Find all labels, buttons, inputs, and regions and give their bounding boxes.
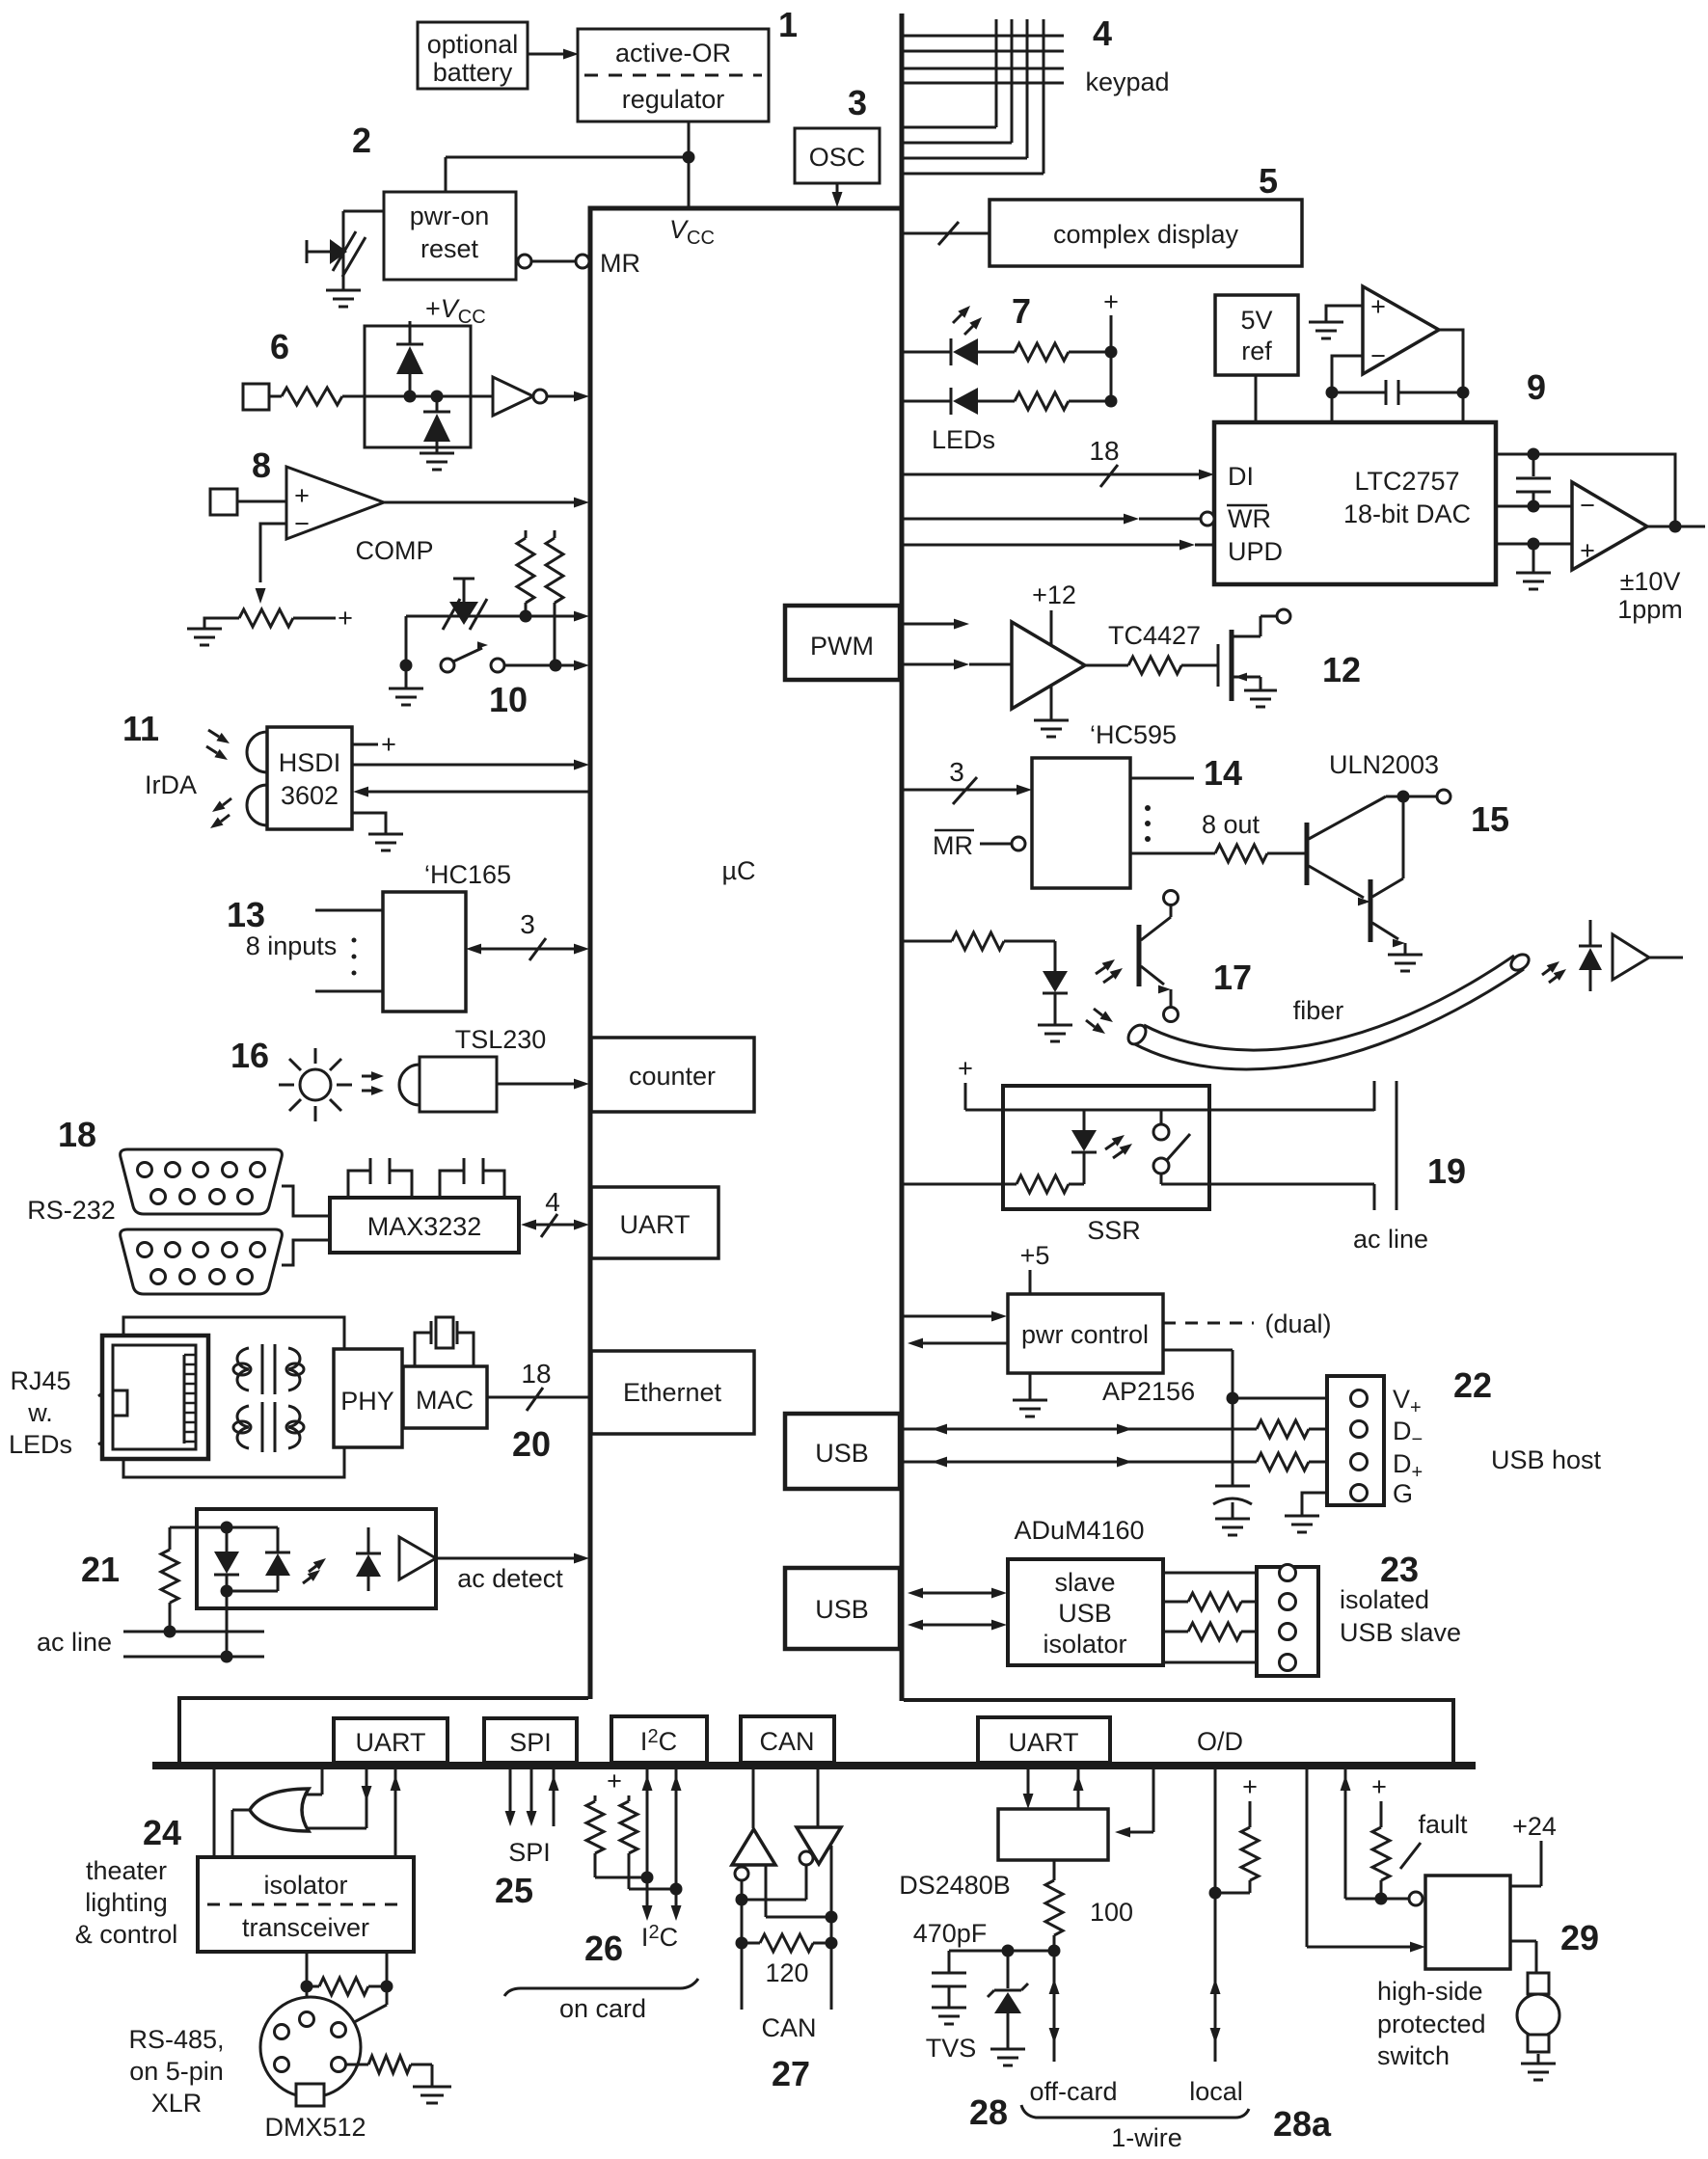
label 26 <box>584 1929 623 1968</box>
wire uC to HSDI RX <box>353 787 590 797</box>
svg-text:MAC: MAC <box>416 1386 474 1415</box>
IrDA lens lower <box>247 785 267 825</box>
svg-text:ac line: ac line <box>1353 1225 1428 1254</box>
svg-text:8 inputs: 8 inputs <box>246 931 338 960</box>
svg-text:22: 22 <box>1453 1365 1492 1405</box>
opto LED D21a <box>214 1527 239 1591</box>
I2C protocol box <box>611 1716 707 1763</box>
SSR LED D19 <box>1071 1110 1097 1184</box>
+5 supply <box>1020 1241 1050 1294</box>
optional battery box <box>418 22 528 89</box>
svg-text:USB: USB <box>1058 1599 1112 1628</box>
svg-text:protected: protected <box>1377 2010 1486 2038</box>
TSL230 part label <box>455 1025 547 1054</box>
UART protocol box 2 <box>978 1717 1110 1763</box>
wire pwr control flag to uC <box>908 1338 1008 1349</box>
wire SSR top to ac line <box>1161 1109 1374 1112</box>
svg-text:27: 27 <box>772 2054 810 2093</box>
svg-text:4: 4 <box>1093 13 1112 53</box>
svg-text:100: 100 <box>1090 1898 1133 1927</box>
opto U21 box <box>197 1509 436 1608</box>
LED emit arrows to fiber <box>1086 1009 1113 1034</box>
collector terminal <box>1437 790 1450 803</box>
oscillator OSC box <box>795 128 880 183</box>
bus wire 4 to UART <box>521 1187 589 1237</box>
svg-text:11: 11 <box>122 709 159 748</box>
svg-text:24: 24 <box>143 1813 181 1852</box>
MR pin label <box>600 249 640 278</box>
svg-text:470pF: 470pF <box>913 1919 988 1948</box>
label 7 <box>1012 291 1031 331</box>
svg-text:isolated: isolated <box>1340 1585 1429 1614</box>
svg-text:26: 26 <box>584 1929 623 1968</box>
svg-text:battery: battery <box>433 58 513 87</box>
resistor R7a <box>978 343 1111 361</box>
svg-text:HSDI: HSDI <box>279 748 341 777</box>
svg-text:keypad: keypad <box>1085 67 1169 96</box>
wire uC to LED1 <box>904 351 951 354</box>
complex display box <box>990 200 1302 266</box>
svg-text:1-wire: 1-wire <box>1111 2123 1182 2152</box>
TC4427 driver U12 <box>1012 622 1085 709</box>
svg-text:28: 28 <box>969 2092 1008 2132</box>
OR gate U24 <box>250 1789 309 1831</box>
wire uC to LED2 <box>904 400 951 403</box>
5V ref U9a box <box>1215 295 1298 375</box>
RJ45 pointer lines <box>98 1369 137 1444</box>
svg-text:local: local <box>1189 2077 1243 2106</box>
input wires <box>315 910 383 991</box>
dual dashed wire <box>1163 1309 1332 1338</box>
wire uC line upper <box>406 611 589 622</box>
off-card label <box>1029 2077 1117 2106</box>
fault pullup + <box>1371 1772 1387 1827</box>
wire OD to DS2480B <box>1115 1768 1153 1838</box>
IrDA lens upper <box>247 732 267 772</box>
node SDA junction <box>641 1872 654 1884</box>
resistor R22b <box>1257 1453 1350 1471</box>
LED D7a <box>951 306 982 365</box>
PWM out arrow 2 <box>904 660 1012 670</box>
iso resistor Rb <box>1163 1623 1279 1640</box>
svg-text:DS2480B: DS2480B <box>899 1871 1011 1900</box>
label 20 <box>512 1424 551 1464</box>
svg-text:reset: reset <box>420 234 479 263</box>
wire uC WR <box>904 512 1214 526</box>
svg-text:18: 18 <box>1089 436 1119 466</box>
svg-text:19: 19 <box>1427 1151 1466 1191</box>
wire opto input top <box>170 1526 278 1529</box>
out ellipsis dots <box>1145 805 1151 842</box>
wire TSL230 to counter <box>497 1079 589 1090</box>
svg-text:TSL230: TSL230 <box>455 1025 547 1054</box>
bus band left edge <box>177 1696 181 1764</box>
node opto cathode junction <box>221 1585 279 1598</box>
svg-text:8 out: 8 out <box>1202 810 1261 839</box>
ground for reset button <box>326 290 361 307</box>
local label <box>1189 2077 1243 2106</box>
wire OSC to uC with arrow <box>832 183 843 207</box>
svg-text:pwr-on: pwr-on <box>410 202 490 230</box>
SPI protocol box <box>484 1718 577 1763</box>
fault flag bubble <box>1409 1892 1423 1905</box>
svg-text:+: + <box>338 604 353 633</box>
svg-text:+: + <box>1580 536 1595 565</box>
label 4 <box>1093 13 1112 53</box>
isolator transceiver U24b box <box>198 1857 414 1952</box>
svg-text:+: + <box>1371 1772 1387 1801</box>
high-side label <box>1377 1977 1486 2070</box>
svg-text:SPI: SPI <box>508 1838 551 1867</box>
fault pullup resistor <box>1372 1827 1390 1899</box>
receiver input wire <box>766 1865 831 1917</box>
label 23 <box>1380 1550 1419 1589</box>
input ellipsis dots <box>352 938 357 976</box>
node term left <box>736 1937 748 1950</box>
CAN protocol box <box>741 1716 834 1763</box>
PWM out arrow 1 <box>904 619 969 630</box>
op-amp U9b <box>1363 286 1439 374</box>
pullup resistor R26b <box>620 1795 676 1889</box>
bypass cap C22 <box>1213 1486 1252 1535</box>
svg-text:MR: MR <box>600 249 640 278</box>
microcontroller U-MCU outline (top edge) <box>588 206 905 211</box>
label 14 <box>1204 753 1242 793</box>
HC165 part label <box>424 860 511 889</box>
local pullup resistor <box>1215 1827 1259 1893</box>
svg-text:on 5-pin: on 5-pin <box>129 2057 224 2086</box>
USB peripheral box 2 <box>785 1568 900 1649</box>
keypad column return wires <box>904 127 1044 174</box>
isolated USB slave label <box>1340 1585 1461 1647</box>
comparator input pad <box>210 489 237 515</box>
svg-text:21: 21 <box>81 1550 120 1589</box>
pullup resistor Ra <box>517 530 534 616</box>
drain terminal <box>1277 609 1290 623</box>
RJ45 w. LEDs label <box>9 1366 72 1459</box>
charge-pump cap C18a <box>348 1158 412 1198</box>
O/D label <box>1197 1727 1243 1756</box>
label 25 <box>495 1871 533 1910</box>
label 21 <box>81 1550 120 1589</box>
HC165 U13 box <box>383 892 466 1012</box>
node opto anode junction <box>221 1522 233 1534</box>
svg-text:18: 18 <box>521 1359 551 1389</box>
base resistor R15 <box>1130 845 1307 862</box>
svg-text:theater: theater <box>86 1856 167 1885</box>
wire ac detect to uC <box>436 1553 589 1564</box>
node V+ junction <box>1227 1392 1351 1405</box>
svg-text:ac detect: ac detect <box>457 1564 563 1593</box>
HSDI supply pin + <box>352 730 396 759</box>
svg-text:3602: 3602 <box>281 781 339 810</box>
microcontroller U-MCU outline (left edge) <box>588 208 593 1699</box>
uC label <box>721 856 755 885</box>
label 8 <box>252 445 271 485</box>
on card brace <box>504 1979 698 1996</box>
svg-text:±10V: ±10V <box>1620 567 1681 596</box>
USB peripheral box 1 <box>785 1414 900 1489</box>
ethernet wiring loop box <box>123 1317 344 1477</box>
local 1-wire line <box>1210 1768 1221 2062</box>
node 1wire junction a <box>1002 1945 1015 1957</box>
120 label <box>765 1958 808 1987</box>
svg-text:WR: WR <box>1228 504 1271 533</box>
svg-text:G: G <box>1393 1479 1413 1508</box>
RS-232 label <box>27 1196 116 1225</box>
label 1 <box>778 5 798 44</box>
PWM peripheral box <box>785 606 900 680</box>
label 22 <box>1453 1365 1492 1405</box>
svg-text:+: + <box>1103 287 1119 316</box>
CAN driver U27b <box>797 1827 841 1864</box>
svg-text:w.: w. <box>27 1398 53 1427</box>
node SCL junction <box>670 1883 683 1896</box>
svg-text:DI: DI <box>1228 462 1254 491</box>
op-amp U8 COMP <box>286 467 384 539</box>
svg-text:PWM: PWM <box>810 632 874 661</box>
svg-text:I2C: I2C <box>640 1726 677 1756</box>
DMX512 label <box>264 2113 366 2142</box>
counter peripheral box <box>591 1038 754 1112</box>
wire regulator to Vcc node <box>446 121 689 206</box>
svg-text:12: 12 <box>1322 650 1361 689</box>
svg-text:USB: USB <box>815 1595 869 1624</box>
UART2 TX arrow <box>1023 1768 1034 1809</box>
clamp diode D1 upper <box>396 344 423 396</box>
svg-text:µC: µC <box>721 856 755 885</box>
ground for trimpot <box>187 629 222 645</box>
I2C line SCL <box>671 1768 682 1921</box>
svg-text:UPD: UPD <box>1228 537 1283 566</box>
svg-text:Ethernet: Ethernet <box>623 1378 722 1407</box>
svg-text:+: + <box>958 1054 973 1083</box>
svg-text:off-card: off-card <box>1029 2077 1117 2106</box>
svg-text:USB host: USB host <box>1491 1445 1602 1474</box>
TSL230 lens <box>399 1065 420 1105</box>
beeper transducer <box>443 579 487 630</box>
svg-text:COMP: COMP <box>356 536 434 565</box>
wire UART TX drop <box>301 1768 372 1828</box>
wire noninv to ground <box>1309 306 1363 338</box>
MAC U20b box <box>403 1366 487 1428</box>
phototransistor Q17 <box>1139 904 1171 1008</box>
high-side switch U29 box <box>1425 1876 1510 1969</box>
node switch right junction <box>550 660 562 672</box>
IR receive arrows top <box>206 730 230 760</box>
keypad column verticals <box>996 19 1044 174</box>
driver ground <box>1034 687 1069 737</box>
wire inverting input to pot wiper <box>256 524 286 604</box>
ADuM4160 part label <box>1014 1516 1144 1545</box>
HSDI3602 U11 box <box>267 727 352 829</box>
svg-text:18: 18 <box>58 1115 96 1154</box>
svg-text:1ppm: 1ppm <box>1617 595 1683 624</box>
UART peripheral box <box>591 1187 718 1258</box>
keypad row wires <box>904 36 1064 83</box>
svg-text:6: 6 <box>270 327 289 366</box>
svg-text:1: 1 <box>778 5 798 44</box>
charge-pump cap C18b <box>440 1158 504 1198</box>
receive photodiode D17b <box>1579 920 1602 991</box>
svg-text:(dual): (dual) <box>1264 1309 1331 1338</box>
svg-text:29: 29 <box>1560 1918 1599 1957</box>
ground below switch <box>389 665 423 705</box>
label 10 <box>489 680 528 719</box>
svg-text:+: + <box>294 481 310 510</box>
svg-text:USB: USB <box>815 1439 869 1468</box>
MR bar input <box>933 830 1025 860</box>
svg-text:+5: +5 <box>1020 1241 1050 1270</box>
off-card 1-wire line <box>1049 1951 1060 2062</box>
svg-text:7: 7 <box>1012 291 1031 331</box>
svg-text:9: 9 <box>1527 367 1546 407</box>
iso resistor Ra <box>1163 1593 1279 1610</box>
wire left vertical <box>405 616 408 665</box>
svg-text:+: + <box>607 1767 622 1795</box>
node 1wire junction b <box>1048 1945 1061 1957</box>
svg-text:ULN2003: ULN2003 <box>1329 750 1439 779</box>
wire pad to comparator <box>237 500 286 503</box>
termination resistor R24 <box>307 1978 387 1995</box>
RJ45 jack inner <box>113 1345 196 1449</box>
ULN2003 part label <box>1329 750 1439 779</box>
1-wire brace <box>1021 2105 1249 2118</box>
RJ45 jack outer <box>102 1336 208 1459</box>
svg-text:ac line: ac line <box>37 1628 112 1657</box>
svg-text:complex display: complex display <box>1053 220 1239 249</box>
local pullup + <box>1242 1772 1258 1827</box>
svg-text:LEDs: LEDs <box>9 1430 72 1459</box>
svg-text:‘HC595: ‘HC595 <box>1090 720 1177 749</box>
RS-485 label <box>128 2025 224 2118</box>
HSDI ground pin <box>352 813 403 850</box>
wire HSDI TX to uC <box>352 760 589 770</box>
fiber optic cable <box>1125 952 1532 1069</box>
svg-text:lighting: lighting <box>85 1888 168 1917</box>
USB slave connector J23 <box>1257 1565 1318 1677</box>
svg-text:23: 23 <box>1380 1550 1419 1589</box>
feedback cap C9 <box>1332 380 1463 405</box>
svg-text:IrDA: IrDA <box>145 770 197 799</box>
XLR shield resistor <box>346 2056 451 2103</box>
transistor Q15b <box>1370 796 1423 971</box>
label 9 <box>1527 367 1546 407</box>
svg-text:SSR: SSR <box>1087 1216 1141 1245</box>
svg-text:transceiver: transceiver <box>242 1913 369 1942</box>
transistor Q15a <box>1307 796 1403 905</box>
theater label <box>75 1856 178 1949</box>
XLR connector J24 <box>260 1997 361 2106</box>
opto LED D21b <box>265 1527 290 1591</box>
CAN label <box>761 2013 816 2042</box>
label 17 <box>1213 958 1252 997</box>
wire DB9s to MAX3232 <box>282 1186 330 1265</box>
gate resistor R12 <box>1085 657 1218 674</box>
svg-text:25: 25 <box>495 1871 533 1910</box>
svg-text:fiber: fiber <box>1293 996 1344 1025</box>
light arrows into sensor <box>362 1071 384 1095</box>
AP2156 part label <box>1102 1377 1195 1406</box>
svg-text:switch: switch <box>1377 2041 1450 2070</box>
wire COMP output to uC <box>384 498 589 508</box>
TVS label <box>926 2034 977 2063</box>
svg-text:USB slave: USB slave <box>1340 1618 1461 1647</box>
svg-text:MAX3232: MAX3232 <box>367 1212 482 1241</box>
470pF label <box>913 1919 988 1948</box>
svg-text:SPI: SPI <box>509 1728 552 1757</box>
buffer U21b <box>399 1537 436 1579</box>
HC595 U14 box <box>1032 758 1130 888</box>
svg-text:ADuM4160: ADuM4160 <box>1014 1516 1144 1545</box>
svg-text:MR: MR <box>933 831 973 860</box>
resistor R7b <box>978 392 1111 410</box>
resistor 100 R28 <box>1045 1860 1063 1951</box>
svg-text:XLR: XLR <box>151 2089 203 2118</box>
clamp diode D2 lower <box>423 396 450 453</box>
node clamp junctions <box>404 391 444 403</box>
8 inputs label <box>246 931 338 960</box>
svg-text:18-bit DAC: 18-bit DAC <box>1343 499 1471 528</box>
wire Vcc into clamp box <box>409 321 412 344</box>
wire reset box top to Vcc wire <box>445 157 447 192</box>
pin labels 22 <box>1393 1385 1423 1508</box>
svg-text:counter: counter <box>629 1062 716 1091</box>
emitter terminal 17 <box>1164 1008 1179 1022</box>
wire DAC output <box>1647 521 1705 533</box>
output spec label <box>1617 567 1683 624</box>
wire bus to isolator <box>213 1768 216 1857</box>
pwr control U22 box <box>1008 1294 1163 1373</box>
COMP label <box>356 536 434 565</box>
microcontroller U-MCU outline (right edge) <box>900 13 905 1701</box>
PHY U20a box <box>334 1349 402 1447</box>
+12 supply <box>1032 580 1076 644</box>
wire uC DI with 18-bus <box>904 436 1214 487</box>
wire USB iso row 2 <box>908 1620 1007 1631</box>
Vcc pin label <box>669 215 715 249</box>
termination resistor 120 <box>742 1934 831 1952</box>
wire TX enable drop <box>301 1768 322 1795</box>
svg-text:15: 15 <box>1471 799 1509 839</box>
buffer gate U6 <box>493 377 589 416</box>
SSR label <box>1087 1216 1141 1245</box>
cap C9b <box>1516 454 1551 506</box>
MR pin bubbles and wire <box>518 255 589 268</box>
resistor R21 <box>161 1527 178 1632</box>
svg-text:−: − <box>1370 341 1386 370</box>
svg-text:14: 14 <box>1204 753 1242 793</box>
node resistor Ra junction <box>520 610 532 623</box>
collector terminal 17 <box>1164 891 1179 905</box>
LED D7b <box>951 388 978 415</box>
label 27 <box>772 2054 810 2093</box>
svg-text:−: − <box>294 509 310 538</box>
fiber LED D17 <box>1038 971 1072 1041</box>
SSR U19 box <box>1003 1086 1209 1209</box>
USB host connector J22 <box>1327 1376 1384 1505</box>
svg-text:OSC: OSC <box>809 143 866 172</box>
svg-text:regulator: regulator <box>622 85 725 114</box>
svg-text:3: 3 <box>520 909 535 939</box>
bus wire 3 to HC595 <box>904 757 1032 804</box>
DS2480B part label <box>899 1871 1011 1900</box>
DAC out force wire <box>1496 505 1572 508</box>
ac detect label <box>457 1564 563 1593</box>
wire USB D- row <box>904 1424 1257 1435</box>
svg-text:10: 10 <box>489 680 528 719</box>
op-amp U9c <box>1572 482 1647 570</box>
